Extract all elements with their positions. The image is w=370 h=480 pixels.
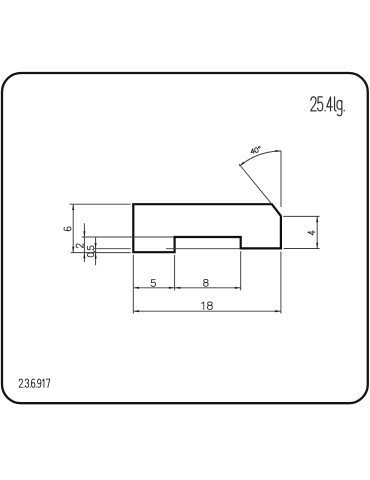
arrow 0,5 lower bbox=[95, 253, 97, 259]
extension line right upper bbox=[283, 215, 319, 217]
extension line notch top level bbox=[82, 236, 174, 238]
chamfer extension line bbox=[239, 164, 272, 204]
arrow 18 right bbox=[275, 310, 281, 312]
arrow 2 upper bbox=[83, 231, 85, 237]
arrow 4 top bbox=[316, 216, 318, 222]
label 18 bbox=[202, 302, 213, 309]
arrow 5 right bbox=[169, 287, 175, 289]
arrow 2 lower bbox=[83, 253, 85, 259]
label 4 bbox=[308, 231, 315, 235]
label 8 bbox=[204, 279, 209, 286]
dimension line 0,5 bbox=[95, 238, 97, 266]
title text 25.4lg. bbox=[311, 97, 344, 116]
extension line below left edge bbox=[132, 255, 134, 314]
arrow 6 top bbox=[72, 204, 74, 210]
arrow 5 left bbox=[133, 287, 139, 289]
extension line below notch right bbox=[240, 251, 242, 290]
arrow 0,5 upper bbox=[95, 243, 97, 249]
dimension line 2 bbox=[83, 223, 85, 262]
label 6 bbox=[64, 227, 71, 231]
arrow arc right end bbox=[275, 150, 281, 152]
extension line bottom level bbox=[71, 252, 131, 254]
label 2 bbox=[76, 244, 83, 248]
arrow 8 left bbox=[175, 287, 181, 289]
extension line below right edge bbox=[280, 252, 282, 314]
extension line lower step level left bbox=[94, 248, 131, 250]
arrow arc left end bbox=[239, 162, 244, 167]
label 5 bbox=[151, 280, 156, 287]
extension line right lower bbox=[284, 248, 320, 250]
part profile outline bbox=[133, 204, 281, 252]
dimension line 18 bbox=[133, 310, 281, 312]
label 40 degrees bbox=[250, 146, 261, 154]
angle dimension arc bbox=[239, 151, 281, 166]
drawing sheet frame bbox=[2, 73, 368, 403]
dimension line 4 bbox=[316, 216, 318, 248]
label 0,5 bbox=[87, 246, 95, 257]
arrow 18 left bbox=[133, 310, 139, 312]
drawing number 2.3.6.917 bbox=[19, 379, 50, 387]
dimension line 5 and 8 bbox=[133, 287, 240, 289]
dimension line 6 bbox=[72, 204, 74, 252]
extension line below step bbox=[174, 255, 176, 291]
arrow 4 bottom bbox=[316, 243, 318, 249]
vertical extension line for angle bbox=[280, 151, 282, 207]
extension line lower step level across notch bbox=[166, 248, 240, 250]
arrow 8 right bbox=[235, 287, 241, 289]
arrow 6 bottom bbox=[72, 247, 74, 253]
extension line top-left bbox=[70, 203, 131, 205]
